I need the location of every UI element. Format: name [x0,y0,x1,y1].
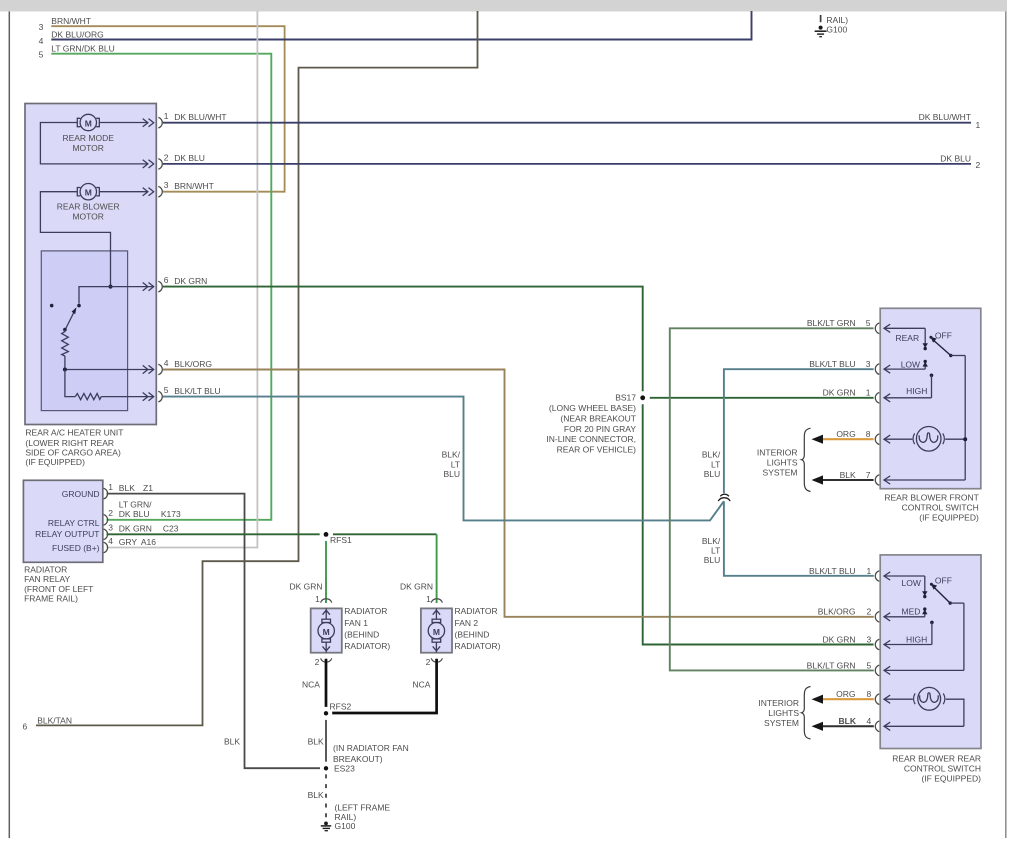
svg-text:BLK: BLK [308,790,324,800]
svg-text:4: 4 [108,536,113,546]
svg-text:RELAY OUTPUT: RELAY OUTPUT [35,529,99,539]
svg-text:HIGH: HIGH [906,635,927,645]
svg-text:LOW: LOW [902,578,921,588]
svg-text:RADIATOR: RADIATOR [24,565,67,575]
svg-text:BLK: BLK [308,737,324,747]
fan1 top connector bracket [321,599,332,603]
label pin6 DK GRN [164,275,207,286]
svg-text:6: 6 [23,721,28,731]
svg-text:LOW: LOW [901,359,920,369]
wire resistor to pin4 [65,356,154,370]
svg-text:FAN 1: FAN 1 [344,618,368,628]
svg-text:3: 3 [39,22,44,32]
heater pin arrows [143,119,154,401]
svg-text:(IN RADIATOR FAN: (IN RADIATOR FAN [333,743,409,753]
svg-text:7: 7 [866,470,871,480]
rear switch pin arrows [884,572,964,731]
svg-text:2: 2 [108,508,113,518]
label DK GRN 3 rear [822,634,871,644]
svg-text:ORG: ORG [836,689,855,699]
svg-text:(BEHIND: (BEHIND [344,629,379,639]
svg-text:DK BLU/WHT: DK BLU/WHT [174,112,226,122]
svg-text:3: 3 [866,359,871,369]
svg-text:DK GRN: DK GRN [119,524,152,534]
label BLK 4 rear [839,716,872,726]
label circuit 5 [39,44,115,60]
label BLK/LT BLU upper right [702,449,721,479]
svg-text:3: 3 [108,523,113,533]
svg-text:2: 2 [867,607,872,617]
svg-text:1: 1 [867,566,872,576]
svg-text:OFF: OFF [935,575,952,585]
wire BLK/LT GRN net [670,328,874,670]
junction dot pin4 branch [63,368,67,372]
svg-text:HIGH: HIGH [906,386,927,396]
svg-text:ORG: ORG [836,429,855,439]
svg-text:LIGHTS: LIGHTS [767,458,798,468]
switch contact dot (off position) [50,304,54,308]
svg-text:FAN RELAY: FAN RELAY [24,574,70,584]
wire BLK/TAN circuit 6 [36,11,478,725]
svg-text:Z1: Z1 [143,483,153,493]
rear switch right rail [963,603,965,670]
svg-text:(IF EQUIPPED): (IF EQUIPPED) [25,457,85,467]
wire GRY fused B+ [107,11,258,548]
label (LEFT FRAME RAIL) [335,802,391,822]
lamp rear switch [884,687,964,726]
front switch REAR position contact [923,328,928,350]
svg-text:GROUND: GROUND [62,489,100,499]
svg-text:LIGHTS: LIGHTS [768,708,799,718]
svg-text:LT GRN/: LT GRN/ [119,500,152,510]
svg-text:GRY: GRY [119,537,138,547]
svg-text:CONTROL SWITCH: CONTROL SWITCH [904,764,981,774]
svg-text:RADIATOR): RADIATOR) [455,641,501,651]
svg-text:BLK/: BLK/ [702,449,721,459]
svg-text:4: 4 [867,716,872,726]
label REAR BLOWER MOTOR [57,201,120,221]
svg-text:DK GRN: DK GRN [174,276,207,286]
svg-text:C23: C23 [163,524,179,534]
wire resistor to pin5 [101,396,153,398]
label circuit 4 [39,30,104,46]
node BS17 [546,393,645,455]
junction RFS2 [324,702,352,716]
junction RFS1 [324,532,352,545]
svg-text:BLK: BLK [119,483,135,493]
wire BLK/LT BLU heater pin5 net [163,369,874,576]
label ORG 8 front [836,429,870,439]
front switch OFF arm [929,336,965,357]
lamp front switch [884,427,965,452]
svg-text:NCA: NCA [302,680,320,690]
wire BLK RFS2 to ES23 [325,720,327,762]
rear switch LOW position contact [922,576,927,598]
svg-text:(NEAR BREAKOUT: (NEAR BREAKOUT [560,413,636,423]
svg-text:(LONG WHEEL BASE): (LONG WHEEL BASE) [549,403,636,413]
svg-text:(BEHIND: (BEHIND [455,629,490,639]
svg-text:1: 1 [108,482,113,492]
svg-text:BLK/LT BLU: BLK/LT BLU [809,566,855,576]
svg-text:DK GRN: DK GRN [400,582,433,592]
label interior lights system front [757,448,798,478]
wire ORG front pin8 [812,435,874,444]
svg-text:LT: LT [711,459,720,469]
svg-text:A16: A16 [141,537,156,547]
rear blower rear control switch box [880,555,981,749]
label pin2 DK BLU [164,152,205,163]
svg-text:M: M [85,188,92,198]
front switch pin arrows [884,324,965,484]
svg-text:OFF: OFF [935,331,952,341]
svg-text:FRAME RAIL): FRAME RAIL) [24,594,78,604]
label circuit 3 [39,16,91,32]
fan2 top connector bracket [431,599,442,603]
rear switch OFF arm [930,583,964,605]
label BLK/LT BLU 1 rear [809,566,871,576]
blower resistor block inner box [41,251,127,411]
svg-text:2: 2 [976,160,981,170]
wire DK BLU heater pin2 to right edge [163,163,971,165]
svg-text:REAR BLOWER: REAR BLOWER [57,201,120,211]
label pin3 DK GRN C23 [108,523,178,534]
svg-text:(IF EQUIPPED): (IF EQUIPPED) [921,774,981,784]
svg-text:RADIATOR): RADIATOR) [344,641,390,651]
svg-text:NCA: NCA [413,680,431,690]
svg-text:M: M [85,118,92,128]
svg-text:DK BLU: DK BLU [940,153,971,163]
svg-text:BLK/LT GRN: BLK/LT GRN [807,660,856,670]
svg-text:DK BLU/ORG: DK BLU/ORG [51,30,103,40]
svg-text:BRN/WHT: BRN/WHT [51,16,91,26]
svg-text:BS17: BS17 [615,393,636,403]
label BLK/LT BLU left [442,449,461,479]
label pin4 GRY A16 [108,536,156,547]
svg-text:REAR MODE: REAR MODE [62,133,114,143]
svg-text:DK BLU/WHT: DK BLU/WHT [919,112,971,122]
front switch LOW position contact [923,360,928,369]
switch contact dot (on position) [77,304,81,308]
front switch pin connector brackets [875,323,879,485]
svg-text:1: 1 [426,594,431,604]
wire loop rear blower motor [40,192,110,287]
radiator fan relay box [23,480,102,562]
label interior lights system rear [758,698,799,728]
svg-text:8: 8 [867,689,872,699]
label DK BLU/WHT right edge [919,112,981,130]
svg-text:6: 6 [164,275,169,285]
wire BLK/ORG heater pin4 [163,370,874,617]
svg-text:4: 4 [164,358,169,368]
svg-text:DK BLU: DK BLU [174,153,205,163]
svg-text:SYSTEM: SYSTEM [763,468,798,478]
label radiator fan 2 [455,606,501,651]
svg-text:(IF EQUIPPED): (IF EQUIPPED) [919,513,979,523]
ground G100 top right [815,15,827,37]
label pin2 LT GRN/DK BLU K173 [108,500,181,520]
svg-text:3: 3 [867,634,872,644]
svg-text:INTERIOR: INTERIOR [758,698,799,708]
wire DK GRN heater pin6 net [163,287,874,645]
wire BLK fan grounds thick [326,659,437,713]
wire DK GRN relay output net [107,533,437,535]
svg-text:CONTROL SWITCH: CONTROL SWITCH [902,503,979,513]
svg-text:REAR: REAR [896,333,920,343]
blower switch arm [65,307,77,330]
svg-text:G100: G100 [826,24,847,34]
svg-text:4: 4 [39,36,44,46]
label DK BLU right edge [940,153,980,170]
svg-text:BLK/ORG: BLK/ORG [174,359,212,369]
rear blower front control switch box [880,308,981,488]
svg-text:BLU: BLU [704,555,721,565]
svg-text:BLK/LT BLU: BLK/LT BLU [809,359,855,369]
brace rear [802,687,811,740]
label BLK/LT GRN 5 front [807,318,871,328]
junction dot switch arm to resistor [63,328,67,332]
label DK GRN 1 front [823,388,871,398]
svg-text:RELAY CTRL: RELAY CTRL [48,518,100,528]
svg-text:1: 1 [976,120,981,130]
svg-text:2: 2 [164,152,169,162]
svg-text:BLK/: BLK/ [442,449,461,459]
svg-text:MOTOR: MOTOR [72,143,103,153]
svg-text:(LOWER RIGHT REAR: (LOWER RIGHT REAR [25,438,114,448]
wire rear blower motor to pin3 [99,191,148,193]
front switch HIGH position contact [930,374,934,398]
junction dot lamp to rail front [963,437,967,441]
label BLK/LT BLU lower right [702,536,721,565]
motor M1 rear mode motor [77,114,99,130]
svg-text:BLK/TAN: BLK/TAN [37,715,72,725]
fan 2 motor symbol [428,608,444,652]
fan2 bottom connector bracket [431,658,442,662]
motor M2 rear blower motor [77,184,99,200]
svg-text:1: 1 [164,111,169,121]
svg-text:REAR BLOWER REAR: REAR BLOWER REAR [892,753,981,763]
label BLK/LT BLU 3 front [809,359,871,369]
svg-text:BLK/LT BLU: BLK/LT BLU [174,386,220,396]
label BLK/LT GRN 5 rear [807,660,872,670]
svg-text:RFS1: RFS1 [330,535,352,545]
svg-text:BLK/LT GRN: BLK/LT GRN [807,318,856,328]
label rear blower front control switch [884,492,979,522]
svg-text:BLU: BLU [704,469,721,479]
rear switch MED position contact [922,607,927,616]
rear switch HIGH position contact [930,621,934,645]
svg-text:FAN 2: FAN 2 [455,618,479,628]
svg-text:DK GRN: DK GRN [290,582,323,592]
wire pin6 internal [79,287,154,304]
svg-text:IN-LINE CONNECTOR,: IN-LINE CONNECTOR, [546,434,636,444]
wire ORG rear pin8 [812,695,874,704]
rear switch pin connector brackets [875,571,879,732]
svg-text:MOTOR: MOTOR [72,212,103,222]
svg-text:SYSTEM: SYSTEM [764,718,799,728]
label pin5 BLK/LT BLU [164,385,221,396]
label radiator fan 1 [344,606,390,651]
svg-text:1: 1 [866,388,871,398]
junction ES23 [324,743,409,773]
relay pin connector brackets [104,488,108,553]
label pin1 BLK Z1 [108,482,153,493]
label rear blower rear control switch [892,753,981,783]
svg-text:M: M [323,627,330,637]
svg-text:5: 5 [164,385,169,395]
wire BLK relay ground [107,494,321,769]
svg-text:RFS2: RFS2 [330,702,352,712]
junction dot blower feed [109,285,113,289]
label BLK 7 front [840,470,871,480]
brace front [802,428,811,491]
rear A/C heater unit box [25,104,156,425]
svg-text:BLK: BLK [840,470,856,480]
svg-text:1: 1 [315,594,320,604]
wire DK BLU/WHT heater pin1 to right edge [163,122,971,124]
svg-text:RADIATOR: RADIATOR [344,606,387,616]
wire to horizontal resistor [65,370,75,397]
fan 1 motor symbol [318,608,334,652]
wire 5 LT GRN/DK BLU [51,54,271,520]
label pin3 BRN/WHT [164,180,214,191]
svg-text:MED: MED [902,607,921,617]
svg-text:2: 2 [426,657,431,667]
label pin4 BLK/ORG [164,358,212,369]
label pin1 DK BLU/WHT [164,111,227,122]
label rear A/C heater unit [25,428,123,467]
wire rear mode motor to pin1 [99,122,148,124]
svg-text:BLK/ORG: BLK/ORG [818,607,856,617]
svg-text:BLK: BLK [839,716,857,726]
svg-text:K173: K173 [161,509,181,519]
svg-text:DK GRN: DK GRN [823,388,856,398]
svg-text:BLK: BLK [224,737,240,747]
in-line connector symbol BLK/LT BLU [718,494,730,501]
svg-text:M: M [433,627,440,637]
svg-text:LT: LT [711,545,720,555]
heater pin connector brackets [158,117,162,402]
wire BLK rear pin4 [812,722,874,731]
svg-text:2: 2 [315,657,320,667]
svg-text:5: 5 [867,660,872,670]
svg-text:3: 3 [164,180,169,190]
svg-text:DK BLU: DK BLU [119,509,150,519]
front switch right rail [964,356,966,481]
svg-text:ES23: ES23 [334,763,355,773]
radiator fan 1 box [311,608,342,652]
svg-text:INTERIOR: INTERIOR [757,448,798,458]
wire loop rear mode motor [40,123,148,164]
svg-text:5: 5 [866,318,871,328]
svg-text:G100: G100 [335,821,356,831]
label REAR MODE MOTOR [62,133,114,153]
svg-text:REAR BLOWER FRONT: REAR BLOWER FRONT [884,492,978,502]
ground G100 bottom [321,822,331,831]
label ORG 8 rear [836,689,871,699]
svg-text:(FRONT OF LEFT: (FRONT OF LEFT [24,584,93,594]
wire BLK front pin7 [812,475,874,484]
svg-text:5: 5 [39,50,44,60]
wire 3 BRN/WHT [51,26,284,192]
svg-text:BLK/: BLK/ [702,536,721,546]
dashed wire BLK to G100 [325,774,327,817]
wire 4 DK BLU/ORG [51,11,751,40]
svg-text:REAR OF VEHICLE): REAR OF VEHICLE) [557,445,637,455]
svg-text:REAR A/C HEATER UNIT: REAR A/C HEATER UNIT [25,428,123,438]
svg-text:FOR 20 PIN GRAY: FOR 20 PIN GRAY [564,424,636,434]
svg-text:BRN/WHT: BRN/WHT [174,181,214,191]
fan1 bottom connector bracket [321,658,332,662]
label circuit 6 BLK/TAN [23,715,72,731]
resistor vertical [62,330,69,356]
svg-text:BREAKOUT): BREAKOUT) [333,754,383,764]
svg-text:BLU: BLU [443,469,460,479]
svg-text:(LEFT FRAME: (LEFT FRAME [335,802,391,812]
label BLK/ORG 2 rear [818,607,872,617]
resistor horizontal [75,394,101,400]
svg-text:FUSED (B+): FUSED (B+) [52,543,100,553]
svg-text:LT: LT [451,459,460,469]
svg-text:DK GRN: DK GRN [822,634,855,644]
svg-text:8: 8 [866,429,871,439]
radiator fan 2 box [421,608,452,652]
svg-text:RADIATOR: RADIATOR [455,606,498,616]
svg-text:LT GRN/DK BLU: LT GRN/DK BLU [51,44,114,54]
label radiator fan relay [24,565,93,604]
